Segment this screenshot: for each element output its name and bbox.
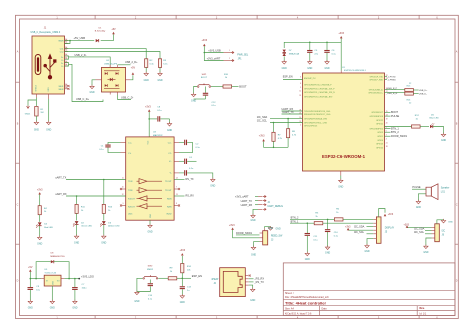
power symbol +5V (USB input) [112, 32, 115, 34]
svg-text:Green LED: Green LED [81, 225, 92, 228]
svg-text:C1-: C1- [128, 153, 132, 155]
ground below SW2 [136, 291, 138, 293]
wire +3V3 to R4 [39, 195, 41, 206]
svg-text:V-: V- [170, 173, 172, 175]
svg-text:PULSE: PULSE [412, 186, 421, 189]
svg-text:+3V3: +3V3 [345, 226, 351, 228]
wire VBUS to D1 [65, 41, 71, 44]
wire +3V3_uART to J4 [255, 196, 258, 198]
svg-text:GPIO5/LP_RXD: GPIO5/LP_RXD [369, 79, 383, 81]
chassis ground arrow [27, 106, 30, 109]
svg-text:4HEAT: 4HEAT [211, 278, 219, 281]
IC U5 output pin and wire to +3V3_LDO [61, 278, 64, 280]
svg-text:1: 1 [229, 50, 230, 52]
svg-text:GND: GND [157, 80, 162, 82]
wire R14 top to +3V3 [181, 256, 183, 264]
svg-text:R2OUT: R2OUT [128, 206, 136, 208]
wire ESP_EN to U1 EN pin [283, 79, 303, 81]
LED D3 amber [102, 221, 106, 224]
wire U1 GPIO to R12 [385, 126, 412, 128]
svg-text:GND: GND [423, 252, 428, 254]
svg-text:PULSE: PULSE [391, 115, 400, 118]
wire USB_R_P to R15 [385, 89, 405, 91]
wire R11 to D2 [76, 213, 78, 220]
svg-text:GND: GND [250, 220, 255, 222]
ground below C11 [306, 252, 308, 254]
svg-text:GPIO1/NGPIO1_CHG/XTAL_32K_N: GPIO1/NGPIO1_CHG/XTAL_32K_N [304, 91, 335, 94]
svg-text:GPIO12/USB_D-: GPIO12/USB_D- [369, 90, 384, 92]
resistor R1 1M [35, 107, 38, 117]
junction dot +3V3_LDO [78, 278, 80, 280]
wire J1 shield to chassis and R1 [35, 98, 37, 107]
U3 T2IN no-connect [122, 188, 126, 190]
capacitor C10 0.1u [327, 219, 329, 221]
ground below C6 [326, 60, 328, 62]
wire USB D- pair to U4 [65, 56, 69, 59]
connector J6 pins [432, 227, 435, 229]
net label uART_TX wire to LED columns [103, 179, 105, 181]
resistor R3 5.1k [158, 59, 161, 68]
wire R9 to ESP_EN node [177, 277, 191, 279]
svg-text:GND: GND [268, 228, 273, 230]
ground at U3 V- cap [212, 178, 214, 180]
wire R1 to GND [35, 116, 37, 122]
svg-text:Size: A4: Size: A4 [285, 307, 294, 310]
svg-text:USB_2_D-: USB_2_D- [75, 54, 87, 57]
svg-text:UART_RX: UART_RX [241, 204, 253, 207]
IC U4 internal rails [104, 70, 120, 72]
wire UART_RX to J4 [255, 204, 258, 206]
frame row dividers and letters [16, 81, 20, 83]
wire R5 to J5 pin2 [323, 222, 373, 224]
connector J5 body [376, 217, 381, 243]
ground at J3 top [270, 226, 272, 228]
wire uART_RX branch to R11 [76, 196, 78, 204]
wire D1 to +5V [101, 40, 114, 42]
svg-text:GPIO7/NGPIO7/SCL_CHG: GPIO7/NGPIO7/SCL_CHG [304, 122, 327, 124]
power symbol +3V3 at J6 [406, 225, 409, 227]
wire U1 BTN_2 stub [385, 131, 391, 133]
ground below J1 [48, 121, 50, 123]
wire R15 to USB_D+ label [413, 89, 418, 91]
resistor R12 1k [412, 125, 421, 128]
svg-text:7: 7 [176, 187, 177, 189]
ground below J4 [252, 214, 254, 216]
svg-text:DISPLAY: DISPLAY [385, 227, 395, 230]
capacitor C14 at U3 V- [174, 172, 179, 174]
svg-text:I2C_SCL: I2C_SCL [354, 231, 365, 234]
svg-text:+3V3_uART: +3V3_uART [207, 58, 221, 61]
svg-text:Blue LED: Blue LED [430, 118, 440, 120]
svg-text:GND: GND [34, 129, 39, 131]
wire +5V to regulator input rail [29, 272, 31, 279]
title block outline [283, 263, 455, 316]
wire SW1 left to ground [194, 87, 197, 94]
ground below C7 [74, 300, 76, 302]
LED D2 green [75, 221, 79, 224]
resistor R9 1k [168, 277, 177, 280]
wire J6 pin1 +3V3 [407, 227, 432, 229]
wire R4 to D4 [39, 215, 41, 222]
svg-text:+3V3: +3V3 [404, 225, 410, 227]
svg-text:KMR2: KMR2 [147, 269, 154, 271]
ground below U5 [51, 300, 53, 302]
svg-text:File: 4HeatESPHomeModule.kicad: File: 4HeatESPHomeModule.kicad_sch [285, 296, 329, 299]
svg-text:C: C [17, 203, 19, 206]
wire J6 bottom pin to ground [426, 238, 432, 245]
speaker LS1 symbol [426, 187, 431, 196]
resistor R11 1k [75, 204, 78, 213]
svg-text:GND: GND [325, 253, 330, 255]
I2C pullup resistor R7 4.7k [273, 123, 275, 133]
svg-text:B.Schottky: B.Schottky [95, 30, 106, 33]
wire SW2 right to R9 [158, 277, 168, 279]
wire J4 pin4 to ground [253, 209, 258, 214]
wire J5 pin4 +3V3 [348, 229, 373, 231]
svg-text:_USB_R_P: _USB_R_P [385, 88, 398, 90]
wire D8 anode loop [36, 262, 51, 279]
svg-text:I2C_SDA: I2C_SDA [257, 116, 268, 119]
capacitor C14 0.1u below SW2 [149, 280, 151, 284]
svg-text:USB_2_D+: USB_2_D+ [125, 61, 138, 64]
wire SW1 right to R10 [211, 86, 223, 88]
ground right of D6 [443, 133, 445, 135]
svg-text:D: D [456, 279, 458, 282]
svg-text:I2C_SDA: I2C_SDA [354, 226, 365, 229]
wire U5 GND pin down [51, 286, 53, 301]
ground below R3 [159, 72, 161, 74]
wire J6 top to ground [437, 220, 444, 224]
svg-text:GND: GND [305, 259, 310, 261]
svg-text:GND: GND [251, 254, 256, 256]
svg-text:IR232: IR232 [166, 214, 171, 216]
ground below SW1 [193, 93, 195, 95]
IC U5 input pin [41, 278, 44, 280]
wire D4 to GND [39, 226, 41, 237]
ground right of C8 [169, 122, 171, 124]
wire +3V3 rail above ESP32 [284, 42, 341, 70]
svg-text:4: 4 [386, 139, 387, 141]
svg-text:GPIO22: GPIO22 [376, 120, 383, 122]
svg-text:KiCad E.D.A. kicad 7.0.6: KiCad E.D.A. kicad 7.0.6 [285, 312, 312, 315]
svg-text:14: 14 [176, 178, 178, 180]
connector J1 USB trident glyph [44, 55, 56, 79]
svg-text:R1OUT: R1OUT [128, 199, 136, 201]
ground below R2 [145, 72, 147, 74]
wire R13 to D3 [103, 213, 105, 220]
power symbol +5V input [29, 269, 32, 271]
capacitor C7 100u output [74, 278, 76, 280]
svg-text:TLV1117-33: TLV1117-33 [44, 272, 56, 274]
svg-text:UART_TX: UART_TX [282, 111, 294, 114]
wire D2 to GND [76, 225, 78, 236]
svg-text:3: 3 [300, 77, 301, 79]
svg-text:uART_TX: uART_TX [55, 177, 66, 180]
resistor R10 1k [223, 85, 232, 88]
svg-text:DOOR_SSW1: DOOR_SSW1 [391, 135, 408, 138]
wire R2 to GND [145, 67, 147, 72]
svg-text:USB_C_D-: USB_C_D- [121, 96, 134, 99]
U3 R2IN no-connect [174, 205, 178, 207]
ground at U4 left [91, 85, 93, 87]
frame column dividers and numbers [94, 15, 96, 19]
svg-text:+3V3: +3V3 [201, 39, 207, 42]
IC U1 bottom pin GND [340, 171, 342, 176]
wire J2 pin4 to ground [249, 285, 253, 288]
power symbol +3V3 at R14 [181, 253, 184, 255]
svg-text:ESP_EN: ESP_EN [283, 76, 293, 79]
wire J1 GND pin down [48, 99, 50, 122]
wire J5 top to +3V3 [379, 209, 385, 217]
power symbol +3V3 at J3 [231, 228, 234, 230]
svg-text:RS_TX: RS_TX [186, 178, 194, 181]
U3 T2OUT no-connect [174, 188, 178, 190]
wire U1 BOOT stub [385, 111, 391, 113]
svg-text:_LPTXD: _LPTXD [386, 77, 396, 79]
svg-text:+3V3: +3V3 [145, 106, 151, 109]
svg-text:GND: GND [89, 92, 94, 94]
resistor R15 22 [405, 89, 414, 92]
svg-text:GND: GND [448, 222, 453, 224]
ground below U1 [340, 179, 342, 181]
ground below J5 [366, 244, 368, 246]
svg-text:100u: 100u [82, 288, 88, 290]
title block column dividers [319, 306, 321, 316]
IC U4 bottom pins [109, 92, 111, 95]
IC U4 top pins [109, 65, 111, 68]
connector J2 RJ12 body [220, 268, 246, 297]
svg-text:VBUS: VBUS [58, 41, 64, 43]
ground below speaker [417, 200, 419, 202]
svg-text:+3V3: +3V3 [179, 249, 185, 252]
wire J5 pin6 to ground [367, 239, 373, 245]
svg-text:13: 13 [299, 95, 301, 97]
connector J4 pin arrows [258, 196, 263, 198]
wire U3 T1IN from uART_TX [66, 179, 126, 181]
svg-text:SW2: SW2 [148, 266, 154, 268]
TVS diode D7 SMAJ5.0A [283, 50, 286, 53]
svg-text:CC1: CC1 [60, 49, 64, 51]
svg-text:GND: GND [324, 68, 329, 70]
svg-text:GPIO0/NGPIO0_CHG/XTAL_32K_P: GPIO0/NGPIO0_CHG/XTAL_32K_P [304, 87, 335, 90]
svg-text:T2IN: T2IN [128, 190, 133, 192]
svg-text:LV05: LV05 [128, 214, 132, 216]
svg-text:UART_TX: UART_TX [241, 200, 253, 203]
ground below D4 [39, 236, 41, 238]
svg-text:GND: GND [50, 308, 55, 310]
wire to +3V3 symbol at ESP32 [340, 38, 342, 42]
power symbol +3V3 at J5 top [384, 214, 387, 216]
svg-text:Speaker: Speaker [441, 187, 450, 190]
svg-text:20: 20 [386, 122, 388, 124]
svg-text:I2C_SCL: I2C_SCL [257, 120, 268, 123]
wire U3 T1OUT to RS_TX [174, 179, 184, 181]
capacitor C3 0.1u at U3 right [174, 152, 179, 154]
wire CC1 to R2 [65, 49, 147, 59]
svg-text:MAX3232: MAX3232 [153, 134, 163, 137]
svg-text:T1IN: T1IN [128, 181, 133, 183]
wire PULSE to speaker [412, 188, 426, 190]
LED D6 blue [420, 126, 429, 128]
svg-text:GPIO5/GPIO23: GPIO5/GPIO23 [304, 126, 317, 128]
wire J3 bottom pin to ground [254, 242, 260, 247]
svg-text:CC2: CC2 [60, 52, 64, 54]
IC U4 right pin to +5V [126, 79, 131, 81]
wire SW2 left to ground [137, 278, 143, 291]
diode D1 schottky [96, 39, 99, 42]
IC U4 USBLC6-2P6 body [102, 67, 126, 92]
power symbol +3V3 at U3 [148, 109, 151, 111]
svg-text:BTN_1: BTN_1 [391, 128, 399, 131]
net label RS_RX at J2 [249, 278, 254, 280]
svg-text:SW1: SW1 [202, 74, 208, 76]
svg-text:GPIO2/NGPIO2: GPIO2/NGPIO2 [370, 129, 383, 131]
IC U4 internal zener center [110, 78, 113, 81]
svg-text:GPIO4/LP_TXD: GPIO4/LP_TXD [370, 77, 384, 79]
svg-text:GPIO20: GPIO20 [376, 147, 383, 149]
power symbol +3V3 at ESP32 [340, 36, 343, 38]
svg-text:GND: GND [307, 68, 312, 70]
svg-text:GPIO9/BOOT: GPIO9/BOOT [371, 112, 384, 114]
connector J1 USB oval glyph [35, 55, 41, 75]
wire USB D+ pair down to U4 bottom [65, 63, 69, 66]
wire D8 cathode loop [54, 262, 69, 279]
svg-text:_USB_R_N: _USB_R_N [385, 93, 398, 95]
svg-text:GND: GND [167, 130, 172, 132]
net label RS_TX at J2 [249, 281, 254, 283]
svg-text:R2IN: R2IN [167, 206, 172, 208]
svg-text:GND: GND [191, 101, 196, 103]
svg-text:USBLC6-2P6: USBLC6-2P6 [104, 63, 118, 65]
capacitor C4 0.1u at U3 V+ [174, 160, 179, 162]
svg-text:I2C: I2C [442, 231, 446, 233]
svg-text:Amber LED: Amber LED [108, 225, 120, 228]
wire to +5V symbol [113, 34, 115, 40]
svg-text:2: 2 [300, 124, 301, 126]
svg-text:+3V3_uART: +3V3_uART [235, 196, 249, 199]
svg-text:PWR_SEL: PWR_SEL [237, 55, 249, 57]
wire J5 pin5 I2C_SCL [367, 233, 374, 235]
wire UART_TX to J4 [255, 200, 258, 202]
wire R3 to GND [159, 67, 161, 72]
svg-text:EN/CHIP_PU: EN/CHIP_PU [304, 78, 316, 80]
svg-text:GND: GND [210, 186, 215, 188]
svg-text:GPIO6/NGPIO6/SDA_CHG: GPIO6/NGPIO6/SDA_CHG [304, 118, 328, 121]
svg-text:Rev.: Rev. [420, 307, 425, 310]
svg-text:T1OUT: T1OUT [165, 181, 172, 183]
svg-text:Date:: Date: [322, 307, 328, 310]
title block row lines [283, 289, 455, 291]
svg-text:C2-: C2- [168, 153, 172, 155]
svg-text:+5V: +5V [131, 66, 136, 69]
svg-text:GND: GND [282, 68, 287, 70]
svg-text:11: 11 [122, 178, 124, 180]
svg-text:ESP_EN: ESP_EN [192, 274, 202, 278]
switch SW1 BOOT [197, 86, 199, 88]
ground below J2 [252, 288, 254, 290]
wire pullups to +3V3 [264, 142, 289, 148]
connector J1 USB_C_Receptacle body [32, 36, 65, 94]
svg-text:GPIO21: GPIO21 [376, 124, 383, 126]
ground below J3 [253, 246, 255, 248]
svg-text:GND: GND [46, 129, 51, 131]
capacitor C12 0.1u [204, 87, 206, 93]
capacitor C2 0.1u at U3 right top [174, 141, 179, 143]
svg-text:BOOT: BOOT [201, 77, 208, 79]
ground below C10 [327, 246, 329, 248]
svg-text:DOOR_SSW1: DOOR_SSW1 [236, 232, 253, 235]
ground at J6 top [443, 219, 445, 221]
IC U5 TLV1117-33 body [44, 275, 61, 286]
svg-text:SBU2: SBU2 [59, 89, 64, 91]
pullup resistor R14 10k [181, 264, 184, 273]
svg-text:GPIO8/NGPIO8: GPIO8/NGPIO8 [370, 116, 383, 118]
svg-text:C: C [456, 203, 458, 206]
svg-text:+5V: +5V [28, 266, 33, 269]
ground below C9 [29, 300, 31, 302]
resistor R6 1k (BTN_2) [334, 218, 343, 221]
svg-text:9: 9 [123, 203, 124, 205]
svg-text:GPIO23: GPIO23 [376, 144, 383, 146]
svg-text:+3V3: +3V3 [37, 188, 43, 191]
svg-text:+3V3: +3V3 [388, 214, 394, 216]
svg-text:BOOT: BOOT [391, 111, 399, 114]
svg-text:GND: GND [364, 251, 369, 253]
wire R16 to USB_D- label [413, 93, 418, 95]
svg-text:SHIELD: SHIELD [36, 84, 38, 91]
connector J6 body [435, 224, 440, 242]
svg-text:RS_RX: RS_RX [186, 194, 195, 197]
ground below C13 [181, 294, 183, 296]
J2 pin1 no-connect [249, 275, 251, 277]
connector J2 pins [245, 275, 249, 277]
IC U3 GND pin to ground [149, 220, 151, 224]
U3 R2OUT no-connect [122, 205, 126, 207]
diode D8 MBRA140T3G bypass [51, 260, 54, 263]
IC U4 left pin to ground [96, 79, 102, 81]
wire U1 LP_RXD stub [385, 78, 388, 80]
svg-text:GND: GND [144, 80, 149, 82]
wire UART_RX to U1 [282, 110, 303, 112]
svg-text:GND: GND [180, 302, 185, 304]
wire D3 to GND [103, 225, 105, 236]
svg-text:+5V_USB: +5V_USB [74, 36, 86, 40]
capacitor C13 1u at ESP_EN [181, 278, 183, 286]
connector J1 no-connect marks SBU [68, 85, 70, 87]
svg-text:USB_D-: USB_D- [419, 94, 427, 96]
svg-text:GND1: GND1 [25, 114, 31, 116]
wire R10 to BOOT label [232, 86, 239, 88]
svg-text:9: 9 [300, 87, 301, 89]
resistor R4 1k [38, 206, 41, 215]
svg-text:GND: GND [134, 301, 139, 303]
svg-text:R1IN: R1IN [167, 199, 172, 201]
svg-text:GPIO15/NGPIO15_CHG/ZGB_P: GPIO15/NGPIO15_CHG/ZGB_P [304, 85, 332, 87]
power symbol +3V3 at J5 pin4 [347, 228, 350, 230]
wire J6 pin3 I2C_SCL [425, 233, 432, 235]
svg-text:USB_C_Receptacle_USB2.0: USB_C_Receptacle_USB2.0 [31, 31, 61, 34]
svg-text:USB_C_D+: USB_C_D+ [76, 98, 90, 101]
svg-text:GND: GND [441, 140, 446, 142]
svg-text:GND: GND [276, 228, 281, 230]
LED D4 red [38, 222, 42, 225]
svg-text:2: 2 [229, 58, 230, 60]
svg-text:+3V3: +3V3 [259, 135, 265, 138]
switch SW2 KMR2 reset [143, 278, 145, 280]
svg-text:1M: 1M [40, 112, 43, 114]
ground below D2 [76, 235, 78, 237]
wire +3V3 to J3 pin3 [233, 230, 260, 238]
